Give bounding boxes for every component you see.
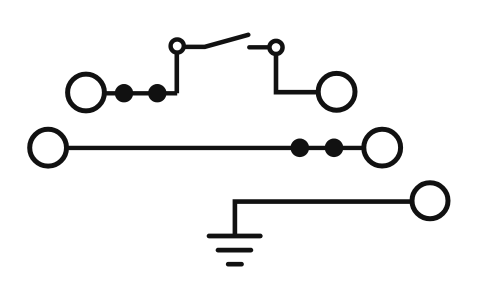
switch SW1 fixed contact (right) <box>269 41 282 54</box>
wire: vertical riser to switch pivot <box>175 50 180 93</box>
level 3: protective earth path <box>209 183 448 265</box>
wire: switch fixed contact lead <box>249 45 268 49</box>
ground bar 3 (bottom, short) <box>228 262 241 267</box>
junction dot: level-1 contact point 2 <box>148 84 166 102</box>
ground bar 2 (middle) <box>218 248 251 253</box>
terminal circle: level-1 left clamp <box>68 74 105 111</box>
terminal circle: level-3 right clamp <box>412 183 448 219</box>
wire: earth lead to level-3 clamp <box>235 202 411 236</box>
switch SW1 blade (open knife disconnect) <box>186 35 248 47</box>
terminal circle: level-2 right clamp <box>364 129 401 166</box>
junction dot: level-1 contact point 1 <box>115 84 133 102</box>
junction dot: level-2 contact point 2 <box>325 139 344 158</box>
ground bar 1 (top, long) <box>209 234 260 239</box>
terminal circle: level-1 right clamp <box>318 73 355 110</box>
wire: level-1 left clamp to disconnect pivot <box>103 91 177 95</box>
terminal circle: level-2 left clamp <box>30 129 67 166</box>
level 2: straight feed-through path <box>30 129 401 166</box>
wire: level-2 bus <box>66 146 364 150</box>
switch SW1 pivot contact (left) <box>171 39 184 52</box>
junction dot: level-2 contact point 1 <box>291 139 310 158</box>
level 1: switched feed-through path <box>68 35 355 111</box>
wire: drop from switch to level-1 right clamp <box>276 55 317 93</box>
